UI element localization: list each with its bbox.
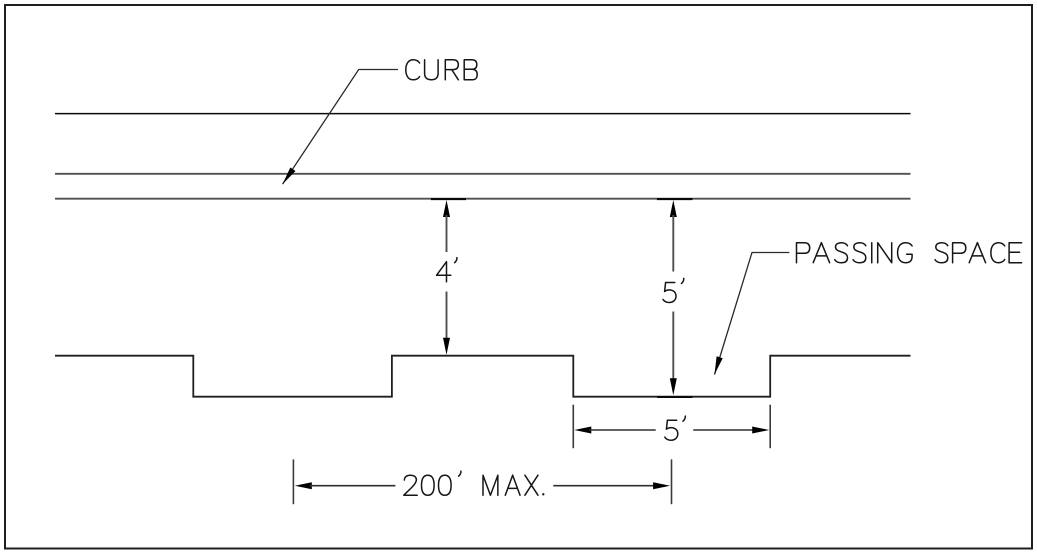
dim 5ft horizontal extension left bbox=[572, 405, 574, 449]
label PASSING bbox=[797, 243, 913, 263]
dim 5ft vertical arrow up bbox=[670, 200, 677, 217]
dim 200ft line right bbox=[553, 485, 656, 487]
dim 5ft horizontal text bbox=[665, 416, 686, 440]
curb line middle bbox=[55, 173, 911, 175]
dim 4ft arrow down bbox=[443, 338, 450, 355]
label SPACE bbox=[935, 243, 1022, 263]
label CURB bbox=[406, 60, 477, 80]
dim 5ft vertical arrow down bbox=[670, 378, 677, 395]
leader line CURB bbox=[283, 70, 398, 185]
dim 5ft horizontal line left bbox=[589, 429, 656, 431]
dim 5ft vertical landing bottom bbox=[657, 396, 692, 398]
dim 5ft vertical text bbox=[663, 278, 684, 302]
dim 4ft upper tail bbox=[446, 215, 448, 252]
dim 200ft line left bbox=[310, 485, 396, 487]
dim 5ft vertical upper tail bbox=[672, 215, 674, 272]
dim 200ft extension right bbox=[671, 459, 673, 504]
dim 5ft horizontal arrow left bbox=[574, 427, 591, 434]
dim 4ft lower tail bbox=[446, 292, 448, 341]
dim 4ft landing top bbox=[431, 198, 466, 200]
dim 5ft vertical lower tail bbox=[672, 312, 674, 380]
arrowhead curb leader bbox=[283, 168, 296, 185]
dim 200ft arrow right bbox=[653, 482, 670, 489]
dim 200ft arrow left bbox=[295, 482, 312, 489]
dim 5ft horizontal extension right bbox=[769, 405, 771, 449]
sidewalk edge with passing spaces bbox=[55, 356, 911, 397]
curb line top bbox=[55, 113, 911, 115]
dim 200ft extension left bbox=[292, 459, 294, 504]
leader line PASSING SPACE bbox=[715, 253, 790, 375]
dim 5ft vertical landing top bbox=[657, 198, 693, 200]
dim 200ft text MAX bbox=[483, 475, 544, 495]
curb line bottom bbox=[55, 198, 911, 200]
dim 5ft horizontal arrow right bbox=[752, 427, 769, 434]
dim 4ft arrow up bbox=[443, 200, 450, 217]
dim 5ft horizontal line right bbox=[693, 429, 754, 431]
arrowhead passing space leader bbox=[715, 356, 723, 374]
dim 200ft text 200 bbox=[404, 471, 461, 495]
dim 4ft text bbox=[437, 258, 457, 282]
